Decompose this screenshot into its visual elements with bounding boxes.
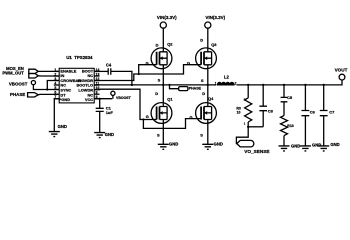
wire VIN to Q3 drain xyxy=(207,28,209,52)
svg-text:1uF: 1uF xyxy=(106,110,114,115)
wire R13 bottom lead xyxy=(283,136,285,146)
transistor Q1 xyxy=(151,103,172,124)
svg-text:S: S xyxy=(200,132,203,137)
wire C1 lead bottom xyxy=(99,111,101,132)
capacitor C7 xyxy=(320,111,328,116)
PWM_OUT label xyxy=(2,70,24,75)
svg-text:4: 4 xyxy=(54,81,56,85)
wire pin 7 PGND to ground xyxy=(54,99,59,132)
GND label R13 xyxy=(291,143,300,148)
junction R3 on rail xyxy=(247,84,249,86)
GND label C6 xyxy=(312,142,321,147)
wire R3 top lead xyxy=(247,85,249,98)
svg-text:D: D xyxy=(200,37,203,42)
VIN(3.3V) label Q3 xyxy=(205,15,225,20)
pin 8 VCC stub xyxy=(94,98,99,100)
capacitor C8 xyxy=(259,106,267,111)
wire phase rail BOOTLO pin 11 to L2 xyxy=(94,84,216,86)
svg-text:S: S xyxy=(158,78,161,83)
svg-text:S: S xyxy=(201,78,204,83)
pin numbers right 14-8 xyxy=(96,68,100,99)
C5 label xyxy=(287,95,293,100)
wire PWM_OUT to pin 2 xyxy=(38,75,59,77)
svg-text:C6: C6 xyxy=(310,109,316,114)
VO_SENSE label xyxy=(244,149,269,154)
Q3 label xyxy=(211,42,217,47)
S label Q2 xyxy=(158,78,161,83)
wire Q1 source to ground xyxy=(162,120,164,145)
svg-text:PGND: PGND xyxy=(59,97,70,102)
transistor Q4 xyxy=(196,103,217,124)
node PWM_OUT input tag xyxy=(29,74,38,79)
GND label C1 xyxy=(105,132,114,137)
svg-text:G: G xyxy=(187,60,190,65)
svg-text:L2: L2 xyxy=(224,75,230,80)
C4 label xyxy=(106,62,112,67)
wire Q4 source to ground xyxy=(207,120,209,145)
VBOOST left label xyxy=(9,82,28,87)
G label Q1 xyxy=(146,114,149,119)
node PHASE left tag xyxy=(28,93,39,97)
svg-text:GND: GND xyxy=(214,141,223,146)
wire C7 top lead xyxy=(323,85,325,111)
node VIN 3.3V terminal for Q3 xyxy=(205,22,211,28)
junction gate bus Q2 xyxy=(138,73,140,75)
svg-text:GND: GND xyxy=(105,132,114,137)
junction C8 on rail xyxy=(262,84,264,86)
Q4 label xyxy=(208,96,214,101)
node VOUT terminal xyxy=(339,74,345,80)
node VIN 3.3V terminal for Q2 xyxy=(160,22,166,28)
pin 10 LOWDR stub xyxy=(94,89,99,91)
svg-text:PWM_OUT: PWM_OUT xyxy=(2,70,24,75)
junction C7 on rail xyxy=(323,84,325,86)
Q1 label xyxy=(167,96,173,101)
R3 labels xyxy=(236,107,241,115)
ground Q4 xyxy=(202,144,213,149)
node PHASE tag near FETs xyxy=(179,87,188,91)
inductor L2 xyxy=(217,82,234,85)
GND label Q1 xyxy=(169,141,178,146)
junction C1 tap xyxy=(99,98,101,100)
ground Q1 xyxy=(158,144,169,149)
svg-text:2: 2 xyxy=(235,82,237,86)
VIN(3.3V) label Q2 xyxy=(157,15,177,20)
junction VBOOST jumper xyxy=(46,88,48,90)
op-amp U1 TPS2834 body xyxy=(59,68,94,103)
svg-text:Q1: Q1 xyxy=(167,96,173,101)
resistor R13 xyxy=(281,116,288,136)
ground C6 xyxy=(300,146,311,151)
svg-text:D: D xyxy=(156,42,159,47)
G label Q3 xyxy=(187,60,190,65)
pin 11 BOOTLO stub xyxy=(94,84,99,86)
svg-text:R13: R13 xyxy=(287,124,293,128)
wire to VO_SENSE tag xyxy=(236,127,248,144)
wire pin 12 HIGHDR to gate bus xyxy=(94,65,201,81)
wire pin 10 LOWDR to low gate bus xyxy=(94,89,156,119)
wire C5 to R13 xyxy=(283,102,285,116)
svg-text:VBOOST: VBOOST xyxy=(116,96,132,100)
GND label Q4 xyxy=(214,141,223,146)
svg-text:D: D xyxy=(202,91,205,96)
C7 label xyxy=(329,109,335,114)
GND label C7 xyxy=(330,142,339,147)
svg-text:VIN(3.3V): VIN(3.3V) xyxy=(157,15,177,20)
ground C1 xyxy=(94,133,105,138)
svg-text:U1: U1 xyxy=(66,55,72,60)
node VBOOST left terminal xyxy=(31,81,35,85)
transistor Q2 xyxy=(151,48,172,69)
wire VBOOST to pin 5 xyxy=(33,85,59,90)
wire pin 8 VCC xyxy=(94,98,112,100)
wire C6 bottom lead xyxy=(304,116,306,146)
ground C7 xyxy=(318,146,329,151)
pin numbers left 1-7 xyxy=(54,68,56,99)
pin 1 ENABLE stub xyxy=(54,70,59,72)
capacitor C4 xyxy=(108,68,111,74)
D label Q2 xyxy=(156,42,159,47)
R13 label xyxy=(287,124,293,128)
junction BOOT drop on phase rail xyxy=(131,84,133,86)
C6 label xyxy=(310,109,316,114)
svg-text:GND: GND xyxy=(330,142,339,147)
wire C1 lead top xyxy=(99,99,101,109)
svg-text:C5: C5 xyxy=(287,95,293,100)
svg-text:G: G xyxy=(146,114,149,119)
svg-text:PHASE: PHASE xyxy=(10,92,25,97)
GND label IC xyxy=(58,124,67,129)
svg-text:S: S xyxy=(157,132,160,137)
node MOS_EN input tag xyxy=(29,69,38,73)
transistor Q3 xyxy=(196,48,217,69)
capacitor C5 xyxy=(281,97,288,101)
resistor R3 xyxy=(245,98,252,122)
svg-text:D: D xyxy=(155,91,158,96)
node VO_SENSE tag xyxy=(237,140,254,147)
Q2 label xyxy=(167,42,173,47)
svg-text:C7: C7 xyxy=(329,109,335,114)
svg-text:1: 1 xyxy=(244,122,246,126)
junction C5 on rail xyxy=(283,84,285,86)
wire C7 bottom lead xyxy=(323,116,325,146)
svg-text:GND: GND xyxy=(312,142,321,147)
svg-text:Q2: Q2 xyxy=(167,42,173,47)
wire C6 top lead xyxy=(304,85,306,111)
L2 label xyxy=(224,75,230,80)
MOS_EN label xyxy=(6,66,24,71)
svg-text:13: 13 xyxy=(96,72,100,76)
svg-text:G: G xyxy=(190,115,193,120)
junction phase rail Q2 source xyxy=(162,84,164,86)
svg-text:VOUT: VOUT xyxy=(335,68,348,73)
svg-text:1: 1 xyxy=(215,82,217,86)
pin 12 HIGHDR stub xyxy=(94,80,99,82)
wire jumper pin 3 to VBOOST net xyxy=(47,81,59,90)
pin name labels right column xyxy=(76,68,93,102)
S label Q4 xyxy=(200,132,203,137)
wire R3 C8 bottom join xyxy=(248,126,263,128)
wire MOS_EN to pin 1 xyxy=(38,70,59,72)
svg-text:VIN(3.3V): VIN(3.3V) xyxy=(205,15,225,20)
junction phase tag stub xyxy=(168,84,170,86)
svg-text:Q4: Q4 xyxy=(208,96,214,101)
wire pin 14 BOOT to C4 xyxy=(94,70,108,72)
wire phase tag stub xyxy=(170,85,179,89)
wire low gate detour under Q1 to Q4 xyxy=(143,119,201,129)
svg-text:PHASE: PHASE xyxy=(189,86,202,90)
svg-text:C8: C8 xyxy=(268,108,274,113)
svg-text:GND: GND xyxy=(58,124,67,129)
G label Q2 xyxy=(146,60,149,65)
pin 14 BOOT stub xyxy=(94,70,99,72)
node VBOOST right terminal xyxy=(111,91,115,98)
svg-text:G: G xyxy=(146,60,149,65)
U1 reference label xyxy=(66,55,93,60)
D label Q1 xyxy=(155,91,158,96)
ground IC xyxy=(49,132,60,137)
R3 pin numbers xyxy=(244,97,246,125)
capacitor C1 xyxy=(96,108,104,111)
wire VIN to Q2 drain xyxy=(162,28,164,52)
capacitor C6 xyxy=(302,111,310,116)
pin 7 PGND stub xyxy=(54,98,59,100)
wire Q4 drain from phase rail xyxy=(207,85,209,107)
svg-text:VO_SENSE: VO_SENSE xyxy=(244,149,269,154)
pin name labels left column xyxy=(59,68,82,102)
svg-text:GND: GND xyxy=(169,141,178,146)
ground R13 xyxy=(279,146,290,151)
S label Q1 xyxy=(157,132,160,137)
wire output rail L2 to VOUT xyxy=(237,80,342,85)
pin 5 SYNC stub xyxy=(54,89,59,91)
pin 9 NC stub xyxy=(94,93,99,95)
wire C4 to BOOTLO node xyxy=(111,71,132,85)
pin 4 NC stub xyxy=(54,84,59,86)
svg-text:9: 9 xyxy=(96,91,98,95)
svg-text:C4: C4 xyxy=(106,62,112,67)
PHASE left label xyxy=(10,92,25,97)
wire C8 bottom lead xyxy=(262,111,264,127)
pin 3 CROWBAR stub xyxy=(54,80,59,82)
svg-text:Q3: Q3 xyxy=(211,42,217,47)
wire Q1 drain from phase rail xyxy=(162,85,164,107)
PHASE label near FETs xyxy=(189,86,202,90)
D label Q3 xyxy=(200,37,203,42)
D label Q4 xyxy=(202,91,205,96)
wire R3 bottom lead xyxy=(247,122,249,127)
C8 label xyxy=(268,108,274,113)
svg-text:GND: GND xyxy=(291,143,300,148)
wire PHASE to pin 6 xyxy=(38,93,59,95)
svg-text:TPS2834: TPS2834 xyxy=(74,55,93,60)
junction C6 on rail xyxy=(304,84,306,86)
junction phase rail Q3 source xyxy=(207,84,209,86)
wire C8 top lead xyxy=(262,85,264,106)
svg-text:VCC: VCC xyxy=(85,97,93,102)
wire gate riser Q2 xyxy=(139,65,157,74)
junction VO_SENSE drop xyxy=(247,126,249,128)
L2 pin numbers xyxy=(215,82,237,86)
C1 label xyxy=(106,105,114,115)
wire Q3 source to phase rail xyxy=(207,65,209,85)
junction low gate bus detour xyxy=(142,118,144,120)
VBOOST right label xyxy=(116,96,132,100)
svg-text:10: 10 xyxy=(237,110,241,114)
S label Q3 xyxy=(201,78,204,83)
pin 6 DT stub xyxy=(54,93,59,95)
wire Q2 source to phase rail xyxy=(162,65,164,85)
wire C5 top lead xyxy=(283,85,285,98)
G label Q4 xyxy=(190,115,193,120)
pin 13 NC stub xyxy=(94,75,99,77)
VOUT label xyxy=(335,68,348,73)
pin 2 IN stub xyxy=(54,75,59,77)
svg-text:VBOOST: VBOOST xyxy=(9,82,28,87)
